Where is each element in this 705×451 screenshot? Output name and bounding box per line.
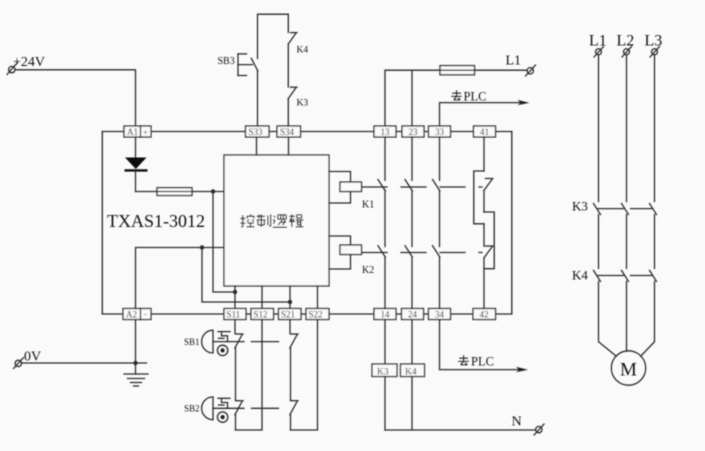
wire phase drops — [598, 55, 600, 202]
svg-text:S12: S12 — [254, 309, 268, 319]
contact K4 main poles — [572, 268, 657, 283]
wire +24V to A1 — [15, 70, 136, 126]
svg-text:N: N — [512, 415, 522, 430]
svg-text:K4: K4 — [572, 268, 588, 283]
junction A2 wire — [200, 245, 204, 249]
terminal A1+ — [124, 126, 151, 137]
terminal S21 — [279, 309, 302, 320]
wire diode to fuse — [136, 191, 158, 193]
wire 23 feed — [411, 70, 413, 126]
char zhi — [257, 214, 271, 227]
node 0V terminal — [14, 350, 42, 369]
control logic box U1 — [224, 155, 329, 286]
svg-text:0V: 0V — [24, 350, 41, 365]
node L1 terminal — [506, 54, 536, 77]
terminal S22 — [306, 309, 329, 320]
svg-text:13: 13 — [381, 127, 391, 137]
wire motor leads — [599, 281, 655, 356]
wire 0V line — [22, 362, 147, 364]
svg-text:A2: A2 — [126, 309, 137, 319]
svg-text:+: + — [143, 127, 148, 137]
wire S22 drop — [317, 286, 319, 309]
svg-text:S33: S33 — [249, 127, 264, 137]
label qu (go to) lower — [458, 355, 469, 365]
svg-text:K2: K2 — [362, 265, 374, 276]
svg-text:PLC: PLC — [471, 355, 494, 369]
terminal S11 — [224, 309, 246, 320]
contact K2 no column23 — [405, 246, 412, 309]
terminal 41 — [474, 126, 496, 137]
terminal S12 — [251, 309, 274, 320]
fuse F2 — [440, 66, 475, 75]
contact K1 no column23 — [405, 137, 412, 247]
wire S11-S12 return loop — [236, 320, 263, 431]
junction fuse output — [211, 189, 215, 193]
svg-text:SB3: SB3 — [218, 56, 235, 67]
wire S12 drop — [261, 286, 263, 309]
contact K2 no column33 — [433, 246, 440, 309]
wire fuse junction down to S11 column — [213, 192, 235, 293]
terminal 33 — [429, 126, 451, 137]
fuse F1 — [157, 188, 192, 196]
motor M — [611, 351, 645, 385]
wire SB3 upper branch — [258, 14, 289, 58]
wire S34 stub — [288, 137, 290, 155]
estop SB1 contact ch1 — [235, 320, 243, 401]
svg-text:K3: K3 — [572, 199, 588, 214]
label L1 L2 L3 phases — [589, 33, 662, 50]
ground — [124, 363, 148, 386]
pushbutton SB3 actuator — [218, 54, 253, 76]
junction S11 column — [233, 290, 237, 294]
svg-text:S34: S34 — [280, 127, 295, 137]
svg-text:K1: K1 — [362, 200, 374, 211]
wire A2 to ground junction — [135, 320, 137, 364]
svg-text:K3: K3 — [297, 99, 309, 109]
svg-text:41: 41 — [480, 127, 489, 137]
wire to PLC upper — [440, 90, 530, 126]
svg-text:K4: K4 — [405, 367, 417, 377]
wire fuse to L1 terminal — [475, 69, 528, 71]
module border TXAS1-3012 — [102, 132, 512, 315]
wire S21 drop — [289, 286, 291, 309]
diode D1 — [125, 137, 148, 192]
label qu (go to) upper — [451, 90, 462, 100]
contact K3 auxiliary NC — [288, 87, 308, 126]
terminal A2- — [123, 308, 151, 319]
char luo — [273, 215, 287, 227]
estop SB2 contact ch2 — [290, 401, 298, 430]
wire S11 drop — [234, 286, 236, 309]
svg-text:L1: L1 — [589, 33, 607, 50]
contact K1 no column33 — [433, 137, 440, 247]
contact K2 nc column41 — [484, 212, 494, 309]
terminal 42 — [473, 309, 496, 320]
node +24V terminal — [7, 55, 45, 75]
contact K1 no column13 — [378, 137, 385, 247]
svg-text:K4: K4 — [297, 46, 309, 56]
pushbutton SB3 contact — [251, 58, 257, 126]
node phase L2 terminal — [622, 47, 632, 58]
char kong — [240, 214, 254, 227]
terminal 14 — [374, 309, 396, 320]
svg-text:S22: S22 — [309, 309, 323, 319]
svg-text:L1: L1 — [506, 54, 522, 69]
svg-text:PLC: PLC — [464, 90, 487, 104]
terminal 13 — [374, 126, 396, 137]
wire N line — [385, 429, 536, 431]
svg-text:34: 34 — [435, 309, 445, 319]
estop SB2 contact ch1 — [235, 401, 243, 430]
junction ground node — [133, 361, 137, 365]
contactor coil K4 — [401, 320, 425, 431]
svg-text:SB2: SB2 — [184, 404, 200, 414]
wire A2 to control box — [136, 248, 225, 309]
svg-text:-: - — [144, 308, 147, 318]
contact K4 auxiliary NC — [288, 33, 308, 87]
contact K1 nc column41 — [474, 137, 493, 224]
svg-text:K3: K3 — [377, 367, 389, 377]
contact K2 no column13 — [378, 246, 385, 309]
junction S21 column — [288, 300, 292, 304]
terminal 24 — [402, 309, 424, 320]
wire S21-S22 return loop — [291, 320, 318, 431]
svg-text:33: 33 — [435, 127, 445, 137]
node N terminal — [512, 415, 545, 436]
wire L1 feed — [385, 70, 440, 126]
wire to PLC lower — [440, 320, 529, 373]
svg-text:42: 42 — [480, 309, 489, 319]
svg-text:A1: A1 — [127, 127, 138, 137]
node phase L1 terminal — [594, 47, 604, 58]
mechanical link K1 row — [362, 186, 482, 188]
contact K3 main poles — [572, 199, 657, 215]
svg-text:14: 14 — [381, 309, 391, 319]
node phase L3 terminal — [650, 47, 660, 58]
estop SB1 — [184, 330, 279, 355]
contactor coil K3 — [372, 320, 397, 431]
svg-text:S21: S21 — [281, 309, 295, 319]
svg-text:24: 24 — [408, 309, 418, 319]
wire between K3 K4 — [598, 215, 600, 269]
relay coil K2 — [329, 236, 374, 276]
svg-text:TXAS1-3012: TXAS1-3012 — [107, 211, 205, 231]
svg-text:SB1: SB1 — [184, 337, 200, 347]
wire fuse to control box — [192, 191, 224, 193]
svg-text:S11: S11 — [227, 309, 241, 319]
char ji — [289, 214, 303, 227]
estop SB2 — [184, 397, 279, 422]
terminal 23 — [402, 126, 424, 137]
terminal 34 — [429, 309, 451, 320]
svg-text:23: 23 — [409, 127, 419, 137]
wire A2 junction down to S21 column — [202, 248, 290, 303]
relay coil K1 — [329, 172, 374, 211]
terminal S34 — [277, 126, 301, 137]
estop SB1 contact ch2 — [290, 320, 298, 401]
mechanical link K2 row — [362, 252, 482, 254]
svg-text:M: M — [620, 360, 637, 381]
label control logic (Chinese 控制逻辑) — [240, 214, 303, 227]
terminal S33 — [246, 126, 270, 137]
svg-text:+24V: +24V — [13, 55, 45, 70]
wire S33 stub — [256, 137, 258, 155]
